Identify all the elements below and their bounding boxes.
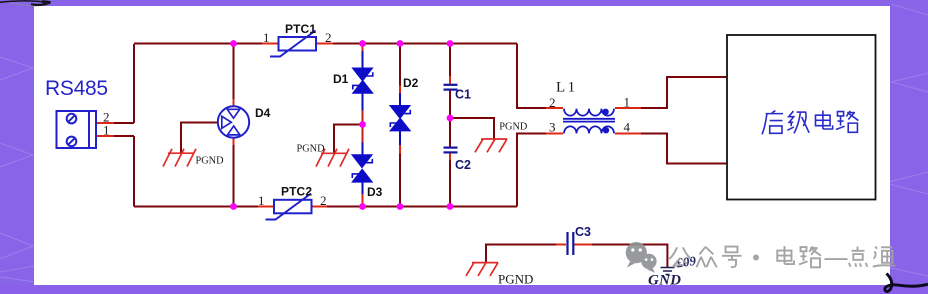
label C2 xyxy=(455,158,471,172)
svg-text:D4: D4 xyxy=(255,106,271,120)
svg-text:L1: L1 xyxy=(556,80,578,96)
ground PGND B (D1-D3 midpoint) xyxy=(316,149,349,167)
wire top rail right segment xyxy=(316,43,517,45)
node C2/bottom-rail xyxy=(447,203,454,210)
pin stub PTC1 pin1 xyxy=(262,43,279,45)
TVS diode D1 (bidirectional) xyxy=(353,68,373,93)
wire C1/C2 midpoint to PGND stem xyxy=(450,118,494,139)
capacitor C1 xyxy=(444,85,458,90)
pin stub L1 pin2 xyxy=(546,107,563,109)
svg-text:2: 2 xyxy=(549,95,556,110)
node D1/top-rail xyxy=(359,40,366,47)
svg-text:RS485: RS485 xyxy=(45,77,108,100)
net label GND xyxy=(648,273,681,289)
svg-text:GND: GND xyxy=(648,273,681,289)
label D3 xyxy=(367,185,383,199)
wire L1 pin1 to rear box xyxy=(640,77,727,108)
label PTC1 xyxy=(285,22,316,36)
inductor L1 common-mode choke xyxy=(563,109,615,134)
pin stub D1 top xyxy=(362,44,364,52)
pin stub RS485 pin1 xyxy=(96,135,114,137)
black swirl bottom-right xyxy=(885,274,928,292)
net label PGND D xyxy=(498,272,533,287)
wire left vertical from RS485 pin1 down to bottom rail xyxy=(112,136,134,207)
black swoosh top-left xyxy=(0,1,51,6)
wire left vertical from RS485 pin2 up to top rail xyxy=(112,44,134,123)
label L1 xyxy=(556,80,578,96)
label rear-stage text 后级电路 xyxy=(762,111,858,135)
pin number 1 (PTC1) xyxy=(263,30,270,45)
svg-text:2: 2 xyxy=(320,193,327,208)
watermark middle dot xyxy=(753,255,759,261)
pin number 1 (connector) xyxy=(103,123,110,138)
pin stub PTC1 pin2 xyxy=(316,43,333,45)
pin stub D4 top xyxy=(233,99,235,106)
svg-text:3: 3 xyxy=(549,119,556,134)
svg-text:D3: D3 xyxy=(367,185,383,199)
wire C3 right net to GND xyxy=(592,245,667,269)
wire D4 top branch xyxy=(233,44,235,107)
gas discharge tube D4 xyxy=(218,106,249,137)
pin stub D3 bottom xyxy=(362,194,364,207)
net label PGND A xyxy=(196,156,225,167)
svg-text:4: 4 xyxy=(624,119,631,134)
svg-text:PGND: PGND xyxy=(499,122,528,133)
net label PGND C xyxy=(499,122,528,133)
label D4 xyxy=(255,106,271,120)
pin number 1 (PTC2) xyxy=(258,193,265,208)
node D2/top-rail xyxy=(397,40,404,47)
node D3/bottom-rail xyxy=(359,203,366,210)
svg-text:D1: D1 xyxy=(333,72,349,86)
pin number 3 (L1) xyxy=(549,119,556,134)
svg-text:PGND: PGND xyxy=(196,156,225,167)
pin number 2 (PTC1) xyxy=(325,30,332,45)
small navy scribble near GND xyxy=(674,253,697,271)
resistor PTC1 (thermistor) xyxy=(270,31,316,57)
label C3 xyxy=(575,225,591,239)
pin stub PTC2 pin2 xyxy=(310,206,327,208)
label RS485 xyxy=(45,77,108,100)
pin lines of TVS diodes (navy) xyxy=(363,51,401,194)
pin stub D2 bottom xyxy=(399,145,401,154)
label D1 xyxy=(333,72,349,86)
rear-stage box xyxy=(727,35,876,200)
svg-text:C1: C1 xyxy=(455,88,471,102)
svg-text:1: 1 xyxy=(103,123,110,138)
svg-text:1: 1 xyxy=(624,95,631,110)
pin stub D2 top xyxy=(399,86,401,94)
watermark text 公众号·电路一点通 xyxy=(669,246,895,267)
pin stub C2 bottom xyxy=(449,153,451,160)
label C1 xyxy=(455,88,471,102)
pin stub PTC2 pin1 xyxy=(258,206,274,208)
svg-text:1: 1 xyxy=(263,30,270,45)
ground PGND C (C1-C2 midpoint) xyxy=(475,139,507,152)
bottom purple strip shade xyxy=(0,285,928,294)
svg-text:C3: C3 xyxy=(575,225,591,239)
wire D2 branch vertical xyxy=(399,44,401,207)
wire L1 pin4 to rear box xyxy=(640,134,727,164)
wire bottom-right corner into L1 pin3 xyxy=(517,134,547,207)
wire C1 branch vertical xyxy=(449,44,451,207)
wire D1 branch vertical (red near junctions) xyxy=(362,110,364,143)
ground PGND D (C3 left) xyxy=(466,263,498,276)
node C1/top-rail xyxy=(447,40,454,47)
node D1-D3 midpoint xyxy=(359,121,366,128)
pin stub L1 pin3 xyxy=(546,133,563,135)
label D2 xyxy=(403,76,419,90)
svg-text:C2: C2 xyxy=(455,158,471,172)
pin number 2 (PTC2) xyxy=(320,193,327,208)
wire top-right corner into L1 pin2 xyxy=(517,44,547,109)
pin stub D4 bottom xyxy=(233,138,235,145)
pin number 2 (connector) xyxy=(103,110,110,125)
pin number 2 (L1) xyxy=(549,95,556,110)
svg-text:2: 2 xyxy=(325,30,332,45)
TVS diode D2 (bidirectional) xyxy=(390,106,410,131)
ground PGND A (under D4 branch) xyxy=(163,149,196,167)
node D4/bottom-rail xyxy=(230,203,237,210)
node D4/top-rail xyxy=(230,40,237,47)
svg-text:PTC2: PTC2 xyxy=(281,185,312,199)
node D2/bottom-rail xyxy=(397,203,404,210)
ground GND (C3 right) xyxy=(661,268,675,275)
pin stub C1 top xyxy=(449,76,451,84)
svg-text:PGND: PGND xyxy=(498,272,533,287)
node C1-C2 midpoint xyxy=(447,115,454,122)
TVS diode D3 (bidirectional) xyxy=(352,155,372,182)
svg-text:PTC1: PTC1 xyxy=(285,22,316,36)
wire top rail left segment xyxy=(134,43,279,45)
wire D4 left to PGND stem xyxy=(181,123,218,153)
label PTC2 xyxy=(281,185,312,199)
pin stub C3 right xyxy=(574,244,592,246)
pin stub L1 pin4 xyxy=(615,133,641,135)
capacitor C2 xyxy=(444,148,458,153)
pin stub RS485 pin2 xyxy=(96,122,114,124)
svg-text:D2: D2 xyxy=(403,76,419,90)
wire D4 bottom branch xyxy=(233,138,235,207)
pin number 4 (L1) xyxy=(624,119,631,134)
svg-text:1: 1 xyxy=(258,193,265,208)
watermark WeChat icon xyxy=(626,242,657,273)
pin stub L1 pin1 xyxy=(615,107,641,109)
wire D1/D3 midpoint to PGND stem xyxy=(334,125,363,153)
wire C3 left net xyxy=(486,245,556,263)
capacitor C3 xyxy=(568,232,574,255)
pin number 1 (L1) xyxy=(624,95,631,110)
wire bottom rail left segment xyxy=(134,206,274,208)
connector J1 RS485 terminal block xyxy=(57,111,97,148)
resistor PTC2 (thermistor) xyxy=(266,194,312,220)
svg-text:PGND: PGND xyxy=(297,144,326,155)
wire bottom rail right segment xyxy=(310,206,517,208)
net label PGND B xyxy=(297,144,326,155)
pin stub C3 left xyxy=(556,244,566,246)
